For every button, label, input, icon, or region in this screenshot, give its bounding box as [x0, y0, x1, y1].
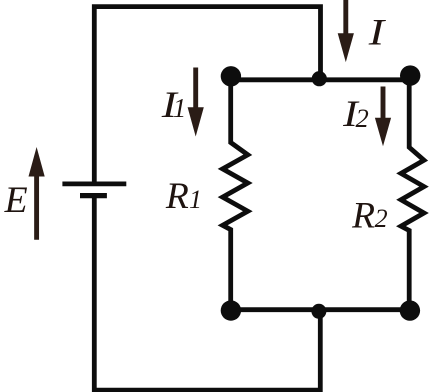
svg-text:1: 1 [173, 93, 187, 123]
svg-text:2: 2 [375, 204, 388, 233]
resistor R2 [401, 76, 424, 311]
emf direction arrow for E [29, 147, 45, 240]
wire: bottom rail between parallel branches [231, 307, 410, 312]
node: top middle junction [312, 71, 327, 86]
current arrow I1 [188, 68, 204, 137]
current arrow I [338, 0, 354, 62]
svg-text:1: 1 [189, 185, 202, 214]
wire: battery + terminal up, across top, down to node B [94, 7, 320, 184]
svg-text:I: I [368, 13, 386, 54]
node: top right junction [400, 65, 420, 85]
resistor R1 [223, 76, 248, 311]
svg-text:E: E [4, 180, 28, 221]
label R1 [165, 176, 202, 217]
battery E plates [62, 184, 126, 196]
node: bottom right junction [400, 300, 420, 320]
node: top left junction [221, 66, 241, 86]
label I2 [342, 94, 369, 135]
label I1 [161, 85, 187, 126]
wire: top rail between parallel branches [231, 77, 410, 82]
svg-text:R: R [165, 176, 189, 217]
svg-text:R: R [351, 196, 375, 237]
current arrow I2 [375, 87, 391, 147]
svg-text:2: 2 [356, 103, 369, 133]
node: bottom middle junction [311, 304, 326, 319]
wire: battery - terminal down, across bottom, up to node C [94, 196, 320, 391]
label R2 [351, 196, 388, 237]
node: bottom left junction [221, 300, 241, 320]
